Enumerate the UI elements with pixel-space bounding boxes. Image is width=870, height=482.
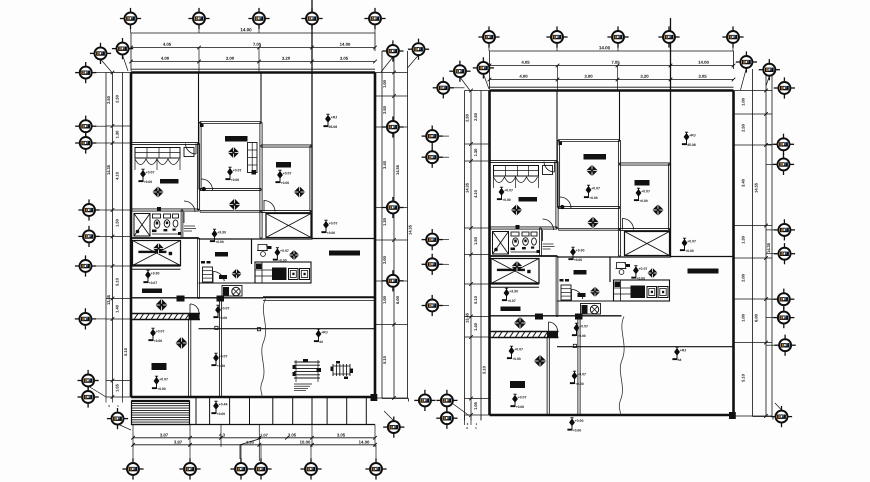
- svg-text:+0.00: +0.00: [516, 405, 525, 409]
- svg-text:14.35: 14.35: [766, 242, 771, 253]
- svg-text:4.05: 4.05: [521, 60, 530, 65]
- svg-text:+0.07: +0.07: [283, 171, 292, 175]
- svg-text:3.05: 3.05: [698, 74, 707, 79]
- wall croom top: [200, 121, 261, 123]
- wall y297 right bold: [263, 296, 375, 298]
- door stop square: [215, 326, 218, 329]
- door arc bath lobby: [543, 219, 554, 230]
- grid bubble: [112, 38, 133, 59]
- left chain tick line: [465, 316, 490, 318]
- dining table 1: [294, 361, 320, 363]
- left chain tick line: [465, 398, 490, 400]
- dim tick: [764, 341, 768, 345]
- grid bubble: [301, 8, 322, 29]
- extension line grid: [258, 48, 260, 73]
- left chain tick line: [465, 336, 490, 338]
- svg-text:3.20: 3.20: [282, 56, 291, 61]
- wall bed2 right: [667, 164, 669, 230]
- grid bubble: [78, 226, 99, 247]
- bubble pair connector: [446, 406, 448, 412]
- ceiling fan bed3: [175, 337, 187, 349]
- left chain vertical: [470, 91, 472, 416]
- wall croom left: [198, 123, 200, 190]
- right chain tick line: [734, 90, 773, 92]
- bubble stem: [382, 280, 386, 282]
- svg-text:5.10: 5.10: [114, 277, 119, 286]
- left chain tick line: [106, 318, 131, 320]
- svg-text:+0.07: +0.07: [687, 239, 696, 243]
- door arc bed2: [264, 201, 275, 212]
- svg-text:+0.07: +0.07: [518, 395, 527, 399]
- bubble leader: [384, 411, 394, 421]
- left chain tick line: [465, 90, 490, 92]
- wall bath right: [539, 228, 541, 256]
- grid bubble: [383, 417, 404, 438]
- floor plan left: [106, 0, 413, 461]
- grid bubble: [78, 199, 99, 220]
- sink: [522, 232, 529, 236]
- right chain vertical: [765, 69, 767, 417]
- dim tick: [310, 436, 314, 440]
- grid line C long: [670, 18, 672, 258]
- junction blob b: [575, 314, 583, 320]
- svg-text:+0.00: +0.00: [575, 382, 584, 386]
- grid bubble: [75, 116, 96, 137]
- extension line left: [130, 33, 132, 71]
- ceiling fan bed1: [152, 186, 164, 198]
- junction block bed3: [189, 314, 200, 320]
- bubble leader: [766, 76, 769, 86]
- svg-text:1.00: 1.00: [382, 79, 387, 88]
- pantry divider: [609, 257, 611, 282]
- bubble stem: [766, 253, 777, 255]
- dimension line top row2: [490, 65, 734, 67]
- svg-text:+0.00: +0.00: [575, 419, 584, 423]
- bubble stem: [382, 207, 386, 209]
- bubble stem: [439, 239, 449, 241]
- dim tick: [469, 397, 473, 401]
- right chain corner: [753, 416, 774, 418]
- extension line grid: [311, 48, 313, 73]
- grid bubble: [230, 458, 251, 479]
- left chain cap: [106, 52, 131, 54]
- stair void lower line: [490, 286, 540, 288]
- ceiling fan void: [511, 261, 522, 272]
- svg-text:+0.07: +0.07: [146, 170, 155, 174]
- left chain foot: [464, 415, 466, 421]
- extension line right: [733, 51, 735, 69]
- bubble stem: [766, 298, 777, 300]
- bubble stem: [766, 229, 777, 231]
- ceiling fan hall2: [587, 217, 599, 229]
- bubble stem: [617, 44, 619, 52]
- svg-text:1.50: 1.50: [114, 218, 119, 227]
- wall bed1 right: [196, 144, 198, 211]
- dim tick: [392, 396, 396, 400]
- kitchen shelf line: [557, 300, 670, 302]
- dim tick: [392, 71, 396, 75]
- svg-text:5.10: 5.10: [473, 295, 478, 304]
- bubble stem: [96, 265, 106, 267]
- grid bubble: [736, 51, 757, 72]
- grid bubble: [773, 154, 794, 175]
- kitchen sink cluster: [617, 263, 626, 269]
- svg-text:+0.00: +0.00: [281, 181, 290, 185]
- bubble stem: [450, 87, 465, 89]
- left chain tick line: [465, 414, 490, 416]
- dim tick: [616, 78, 620, 82]
- annotation smudge bath: [543, 243, 554, 245]
- floor plan right: [464, 18, 773, 433]
- right chain tick line: [375, 280, 408, 282]
- level marker kitchen: [631, 266, 647, 281]
- kitchen black unit: [272, 268, 287, 281]
- closet croom: [248, 143, 258, 173]
- scallop posts: [493, 177, 495, 189]
- door arc pantry: [571, 289, 583, 299]
- level marker corridor: [570, 371, 586, 386]
- svg-text:+0.00: +0.00: [573, 429, 582, 433]
- wall y239 right part: [557, 256, 671, 258]
- dim tick: [469, 315, 473, 319]
- door arc bed1: [544, 162, 555, 173]
- wall mid vertical: [555, 256, 557, 317]
- wall bed2 bottom: [620, 227, 670, 229]
- grid bubble: [478, 26, 499, 47]
- bubble stem: [766, 317, 777, 319]
- dimension line top row2: [131, 47, 375, 49]
- bubble stem: [732, 44, 734, 52]
- wall outer right: [374, 73, 377, 398]
- right chain tick line: [375, 95, 408, 97]
- dim tick: [197, 46, 201, 50]
- svg-text:5.10: 5.10: [481, 365, 486, 374]
- bubble leader: [123, 55, 129, 71]
- grid bubble: [774, 219, 795, 240]
- junction block bed3: [547, 332, 558, 338]
- grid bubble: [773, 134, 794, 155]
- dim tick: [285, 436, 289, 440]
- ceiling fan hall: [155, 299, 167, 311]
- bubble stem: [382, 126, 386, 128]
- svg-text:6.00: 6.00: [395, 295, 400, 304]
- dim tick: [764, 256, 768, 260]
- wall y298 left: [131, 297, 263, 299]
- door closet bed1: [543, 166, 553, 175]
- left chain vertical: [112, 73, 114, 398]
- grid bubble: [774, 77, 795, 98]
- dimension line top row3: [490, 79, 734, 81]
- shower head: [136, 230, 140, 234]
- grid bubble: [759, 59, 780, 80]
- svg-text:+0.07: +0.07: [641, 189, 650, 193]
- svg-text:+0.00: +0.00: [217, 412, 226, 416]
- dim tick: [732, 64, 736, 68]
- svg-text:+3.30: +3.30: [576, 248, 585, 252]
- grid bubble: [382, 270, 403, 291]
- dim tick: [111, 141, 115, 145]
- level marker laundry: [572, 323, 588, 338]
- grid bubble: [422, 126, 443, 147]
- bed center room: [584, 154, 607, 160]
- grid bubble: [775, 335, 796, 356]
- stair void bar: [497, 269, 525, 271]
- washer 1: [289, 269, 299, 280]
- sink: [164, 214, 171, 218]
- bubble leader: [741, 68, 747, 90]
- dim tick: [111, 264, 115, 268]
- void box 2: [266, 214, 311, 238]
- dim tick: [188, 436, 192, 440]
- svg-text:14.35: 14.35: [106, 164, 111, 175]
- shower head: [494, 248, 498, 252]
- svg-text:2.50: 2.50: [106, 95, 111, 104]
- svg-text:+RJ: +RJ: [331, 115, 338, 119]
- svg-text:3.87: 3.87: [174, 440, 183, 445]
- stairs top bold: [132, 400, 190, 402]
- dim tick: [111, 235, 115, 239]
- kitchen shelf line: [199, 282, 312, 284]
- svg-text:14.00: 14.00: [340, 42, 351, 47]
- level marker living: [314, 329, 328, 344]
- stair void lower line: [131, 268, 181, 270]
- grid bubble: [773, 289, 794, 310]
- svg-text:+3.30: +3.30: [509, 289, 518, 293]
- door stop square 2: [257, 328, 260, 331]
- level marker corridor: [211, 353, 227, 368]
- grid bubble: [658, 26, 679, 47]
- left chain vertical: [464, 91, 466, 416]
- left chain tick line: [106, 298, 131, 300]
- wardrobe divisions: [135, 152, 180, 154]
- stairs treads: [132, 402, 190, 404]
- bubble stem: [130, 25, 132, 33]
- bubble stem: [258, 25, 260, 33]
- right chain tick line: [375, 207, 408, 209]
- kitchen counter: [255, 262, 311, 283]
- svg-text:3.00: 3.00: [584, 74, 593, 79]
- stairs outline: [132, 401, 190, 425]
- ceiling fan hall: [514, 317, 526, 329]
- dim tick: [111, 379, 115, 383]
- wall corridor: [577, 317, 579, 416]
- right chain tick line: [375, 397, 408, 399]
- dim tick: [469, 282, 473, 286]
- kitchen black unit: [631, 286, 646, 299]
- svg-text:4.00: 4.00: [519, 74, 528, 79]
- door stop square: [573, 344, 576, 347]
- level marker near void: [210, 229, 226, 244]
- bubble stem: [556, 44, 558, 52]
- level marker bed2: [634, 188, 650, 203]
- bubble leader: [453, 404, 470, 416]
- grid bubble: [607, 26, 628, 47]
- svg-text:1.40: 1.40: [473, 322, 478, 331]
- bubble stem: [374, 25, 376, 33]
- wall outer bottom: [131, 396, 375, 399]
- svg-text:44: 44: [319, 340, 323, 344]
- wall croom right: [617, 141, 619, 257]
- threshold dashes: [560, 279, 564, 282]
- ceiling fan kitchen: [647, 268, 657, 278]
- svg-text:14.00: 14.00: [599, 45, 611, 50]
- dim tick: [111, 297, 115, 301]
- dim tick: [556, 64, 560, 68]
- dim tick: [764, 112, 768, 116]
- section wavy line: [261, 299, 266, 398]
- dim tick: [129, 60, 133, 64]
- wall bed2 bottom: [261, 209, 311, 211]
- dim tick: [764, 143, 768, 147]
- bubble stem: [96, 235, 106, 237]
- dim tick: [373, 436, 377, 440]
- grid bubble: [300, 458, 321, 479]
- annotation smudge bath: [184, 225, 195, 227]
- bubble stem: [260, 445, 262, 463]
- grid bubble: [422, 229, 443, 250]
- bubble leader: [408, 55, 419, 68]
- svg-text:5.10: 5.10: [123, 347, 128, 356]
- bubble stem: [488, 44, 490, 52]
- stair void bottom bold: [131, 264, 181, 266]
- bed bed3: [152, 363, 167, 370]
- wall bed1 bottom: [131, 208, 199, 210]
- dim tick: [257, 60, 261, 64]
- svg-text:+0.07: +0.07: [233, 168, 242, 172]
- svg-text:3.05: 3.05: [340, 56, 349, 61]
- bubble stem: [766, 344, 777, 346]
- svg-text:+0.07: +0.07: [504, 188, 513, 192]
- svg-text:7.05: 7.05: [611, 60, 620, 65]
- wall bed1 top: [490, 159, 558, 161]
- bubble stem: [439, 135, 449, 137]
- grid bubble: [78, 370, 99, 391]
- level marker mid right: [321, 220, 337, 235]
- level marker bed3b: [152, 376, 168, 391]
- svg-text:2.00: 2.00: [382, 255, 387, 264]
- extension line right: [374, 33, 376, 51]
- grid bubble: [75, 255, 96, 276]
- svg-text:1.30: 1.30: [382, 217, 387, 226]
- grid bubble: [408, 39, 429, 60]
- bubble leader: [118, 424, 132, 430]
- dim tick: [392, 94, 396, 98]
- left chain vertical: [105, 73, 107, 398]
- left chain foot: [105, 397, 107, 403]
- bed bed1: [519, 197, 538, 202]
- wall bed2 top: [620, 162, 671, 164]
- svg-text:3.00: 3.00: [226, 56, 235, 61]
- svg-text:+0.07: +0.07: [577, 372, 586, 376]
- ceiling fan void: [153, 243, 164, 254]
- dimension line top row3: [131, 61, 375, 63]
- bubble leader: [460, 77, 470, 91]
- svg-text:5.10: 5.10: [740, 373, 745, 382]
- level text void: [143, 270, 159, 285]
- level marker mid right: [680, 238, 696, 253]
- wall bed3 double top a: [131, 313, 200, 315]
- shelf ladder: [203, 267, 213, 282]
- left chain tick line: [106, 265, 131, 267]
- bubble leader: [483, 74, 489, 89]
- left chain tick line: [106, 142, 131, 144]
- bubble stem: [96, 125, 106, 127]
- stove black: [223, 287, 229, 296]
- svg-text:2.50: 2.50: [464, 113, 469, 122]
- right chain tick line: [734, 342, 773, 344]
- dim tick: [131, 443, 135, 447]
- stair void box: [133, 241, 181, 266]
- dimension line bottom row1: [133, 437, 375, 439]
- dim tick: [111, 124, 115, 128]
- pantry bar 1: [574, 270, 587, 275]
- bubble stem: [310, 445, 312, 463]
- door arc bed2: [623, 219, 634, 230]
- grid bubble: [436, 390, 457, 411]
- svg-text:+0.00: +0.00: [512, 357, 521, 361]
- wall bed2 right: [309, 146, 311, 212]
- svg-text:+3.30: +3.30: [151, 271, 160, 275]
- level marker living: [672, 347, 686, 362]
- stair void bar: [138, 251, 166, 253]
- wall y298 left: [490, 315, 622, 317]
- junction block croom: [200, 124, 204, 128]
- grid bubble: [546, 26, 567, 47]
- dim tick: [392, 238, 396, 242]
- svg-text:14.35: 14.35: [464, 182, 469, 193]
- dim tick: [219, 436, 223, 440]
- dim tick: [111, 395, 115, 399]
- wall croom right: [259, 123, 261, 239]
- grid bubble: [422, 295, 443, 316]
- stair void bottom bold: [490, 282, 540, 284]
- stove circle: [232, 287, 240, 295]
- door arc bed1: [186, 144, 197, 155]
- section wavy line: [619, 317, 624, 416]
- dim tick: [111, 71, 115, 75]
- svg-text:45.08: 45.08: [687, 143, 696, 147]
- ceiling fan croom: [586, 165, 598, 177]
- shower box: [493, 232, 509, 255]
- left chain tick line: [106, 125, 131, 127]
- wall bed1 top: [131, 141, 199, 143]
- left chain tick line: [465, 254, 490, 256]
- grid line A: [198, 73, 200, 144]
- svg-text:+0.00: +0.00: [215, 240, 224, 244]
- left chain tick line: [465, 227, 490, 229]
- ceiling fan croom: [228, 147, 240, 159]
- dim tick: [257, 46, 261, 50]
- right chain tick line: [734, 415, 773, 417]
- ceiling fan bed2: [652, 204, 664, 216]
- wardrobe divisions: [494, 170, 539, 172]
- svg-text:2.50: 2.50: [114, 94, 119, 103]
- dim tick: [258, 443, 262, 447]
- wall bed3 double top b: [131, 319, 200, 321]
- dim tick: [392, 125, 396, 129]
- left chain vertical: [480, 91, 482, 416]
- dim tick: [469, 159, 473, 163]
- dim tick: [131, 436, 135, 440]
- ceiling fan hall2: [229, 199, 241, 211]
- grid bubble: [248, 8, 269, 29]
- left chain tick line: [465, 283, 490, 285]
- grid bubble: [122, 458, 143, 479]
- svg-text:+0.07: +0.07: [507, 299, 516, 303]
- svg-text:+0.00: +0.00: [154, 339, 163, 343]
- dim tick: [488, 64, 492, 68]
- grid bubble: [382, 197, 403, 218]
